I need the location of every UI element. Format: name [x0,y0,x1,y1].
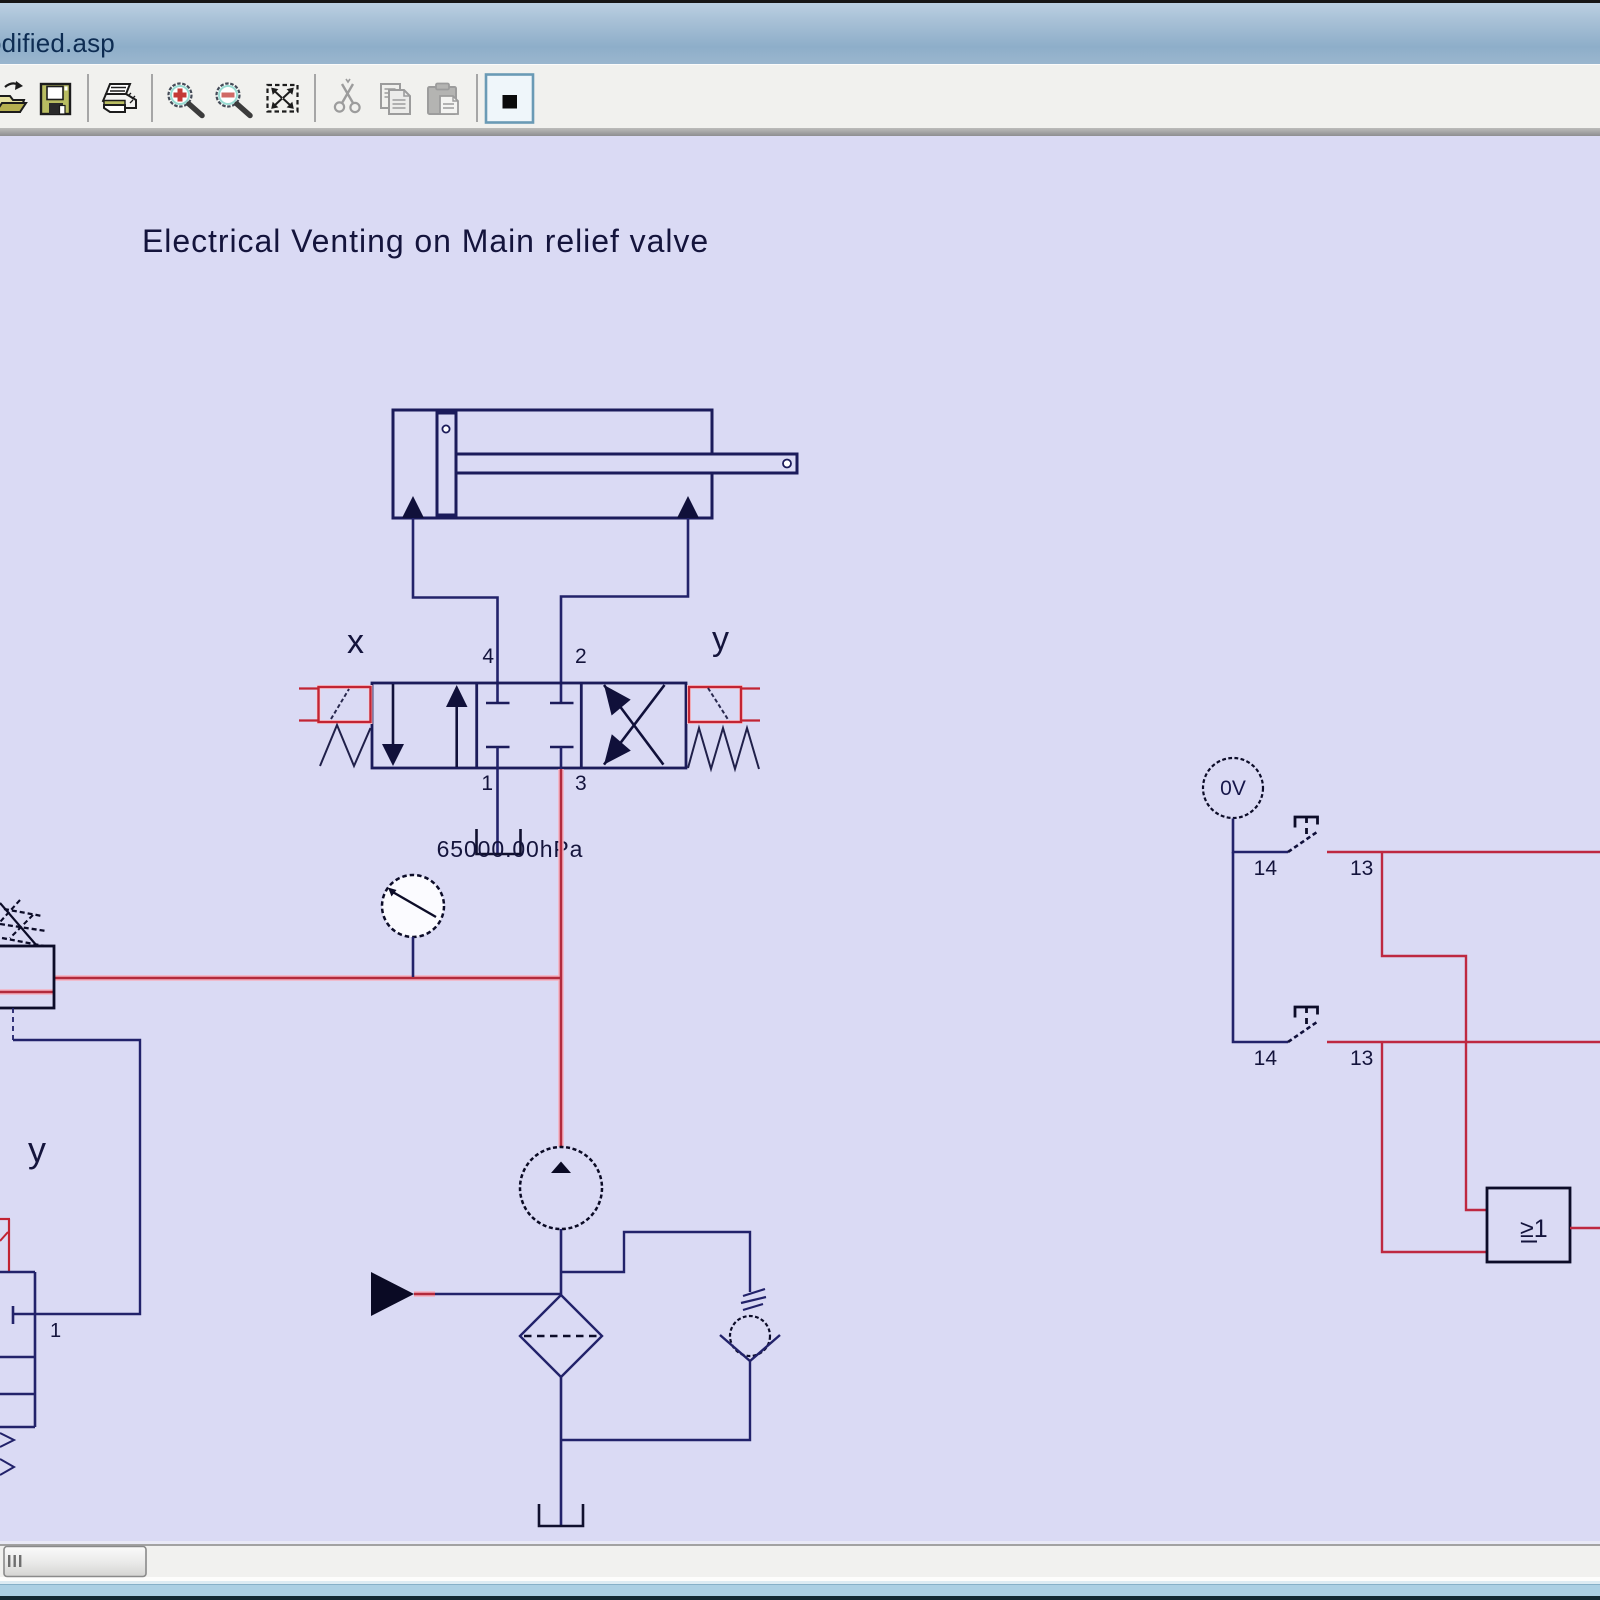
valve V1 body [372,683,686,768]
toolbar icon: zoom out [217,84,251,116]
svg-text:y: y [28,1129,46,1170]
cylinder C1 rod [456,454,797,473]
wire filter to tank [560,1377,563,1525]
svg-text:≥1: ≥1 [1520,1215,1548,1243]
filter F1 [520,1295,602,1377]
wire vent line to valve V2 port 1 [13,1040,140,1314]
spring left of valve V1 [320,725,371,766]
svg-text:4: 4 [482,645,494,668]
tank T2 [539,1504,583,1526]
wire suction arrow to filter [414,1293,435,1296]
wire 0V rail down to switch S2 [1233,852,1288,1042]
svg-text:2: 2 [575,645,587,668]
svg-text:14: 14 [1254,1047,1278,1070]
tank T1 under valve port 1 [477,829,521,854]
valve V2 solenoid remnant [0,1219,10,1272]
voltage source 0V [1203,758,1263,818]
wire S2 output rail [1327,1041,1600,1043]
toolbar icon: print [103,84,136,112]
toolbar separator [87,74,89,122]
wire S2 branch to OR gate input 2 [1382,1042,1487,1252]
main relief valve RV1 body [0,946,54,1008]
gauge G1 [382,875,444,937]
toolbar icon: open file [0,81,26,112]
valve V2 body (cut off) [0,1272,35,1427]
valve V2 port terminal [12,1306,15,1324]
solenoid right of valve V1 [689,687,760,722]
toolbar icon: copy (disabled) [381,84,410,114]
pressure wire valve port 3 to pump [560,769,563,1147]
toolbar separator [314,74,316,122]
pressure wire P net highlighted halo [0,769,561,1294]
switch S1 contact blade [1288,832,1317,852]
svg-text:1: 1 [481,772,493,795]
wire valve port 1 to tank [496,747,499,853]
wire 0V to switch S1 [1233,819,1288,853]
switch S2 actuator [1295,1007,1318,1024]
relief valve RV2 ball and seat [720,1316,780,1361]
wire cylinder right port to valve port 2 [561,518,688,703]
toolbar icon: paste (disabled) [428,84,458,115]
svg-text:13: 13 [1350,1047,1373,1070]
main relief valve RV1 spring and arrow [0,900,46,946]
valve V1 left position parallel arrows [382,684,468,767]
wire valve port 3 stub [560,747,563,769]
svg-text:0V: 0V [1220,777,1246,800]
cylinder port arrow right [677,496,699,518]
wire gauge to pressure line [412,937,415,977]
pressure wire into main relief valve [0,991,54,994]
svg-text:y: y [712,620,729,658]
svg-text:13: 13 [1350,857,1373,880]
svg-text:Electrical Venting on Main rel: Electrical Venting on Main relief valve [142,223,709,259]
cylinder C1 body [393,410,712,518]
valve V1 right position crossed arrows [604,685,665,765]
cylinder port arrow left [402,496,424,518]
wire S1 output rail [1327,851,1600,853]
toolbar icon: fit to window [268,85,298,112]
svg-text:x: x [347,623,364,661]
toolbar scrollbar-thumb [4,1547,146,1577]
wire branch to system relief valve [561,1232,750,1292]
toolbar icon: cut (disabled) [335,79,360,112]
pilot line dashed from RV1 [12,1008,14,1040]
toolbar icon: save [41,84,70,114]
switch S1 actuator [1295,817,1318,834]
pressure wire relief valve to P node [54,977,561,980]
wire OR gate output [1570,1227,1600,1229]
wire S1 branch to OR gate input 1 [1382,852,1487,1210]
valve V2 spring (cut off) [0,1433,14,1475]
valve V1 centre position blocked ports [486,703,574,747]
spring right of valve V1 [688,728,759,769]
pump P1 [520,1147,602,1229]
switch S2 contact blade [1288,1022,1317,1042]
svg-text:3: 3 [575,772,587,795]
toolbar separator [476,74,478,122]
wire relief valve return [561,1361,750,1440]
wire cylinder left port to valve port 4 [413,518,498,703]
svg-text:1: 1 [50,1320,61,1342]
wire pump inlet to filter [560,1229,563,1295]
relief valve RV2 spring [741,1289,766,1310]
toolbar icon: zoom in [169,84,203,116]
toolbar stop button (active) [486,75,533,123]
suction arrow [371,1272,414,1316]
solenoid left of valve V1 [299,687,371,722]
svg-text:14: 14 [1254,857,1278,880]
cylinder C1 piston [437,413,456,515]
toolbar separator [151,74,153,122]
OR gate U1 [1487,1188,1570,1262]
